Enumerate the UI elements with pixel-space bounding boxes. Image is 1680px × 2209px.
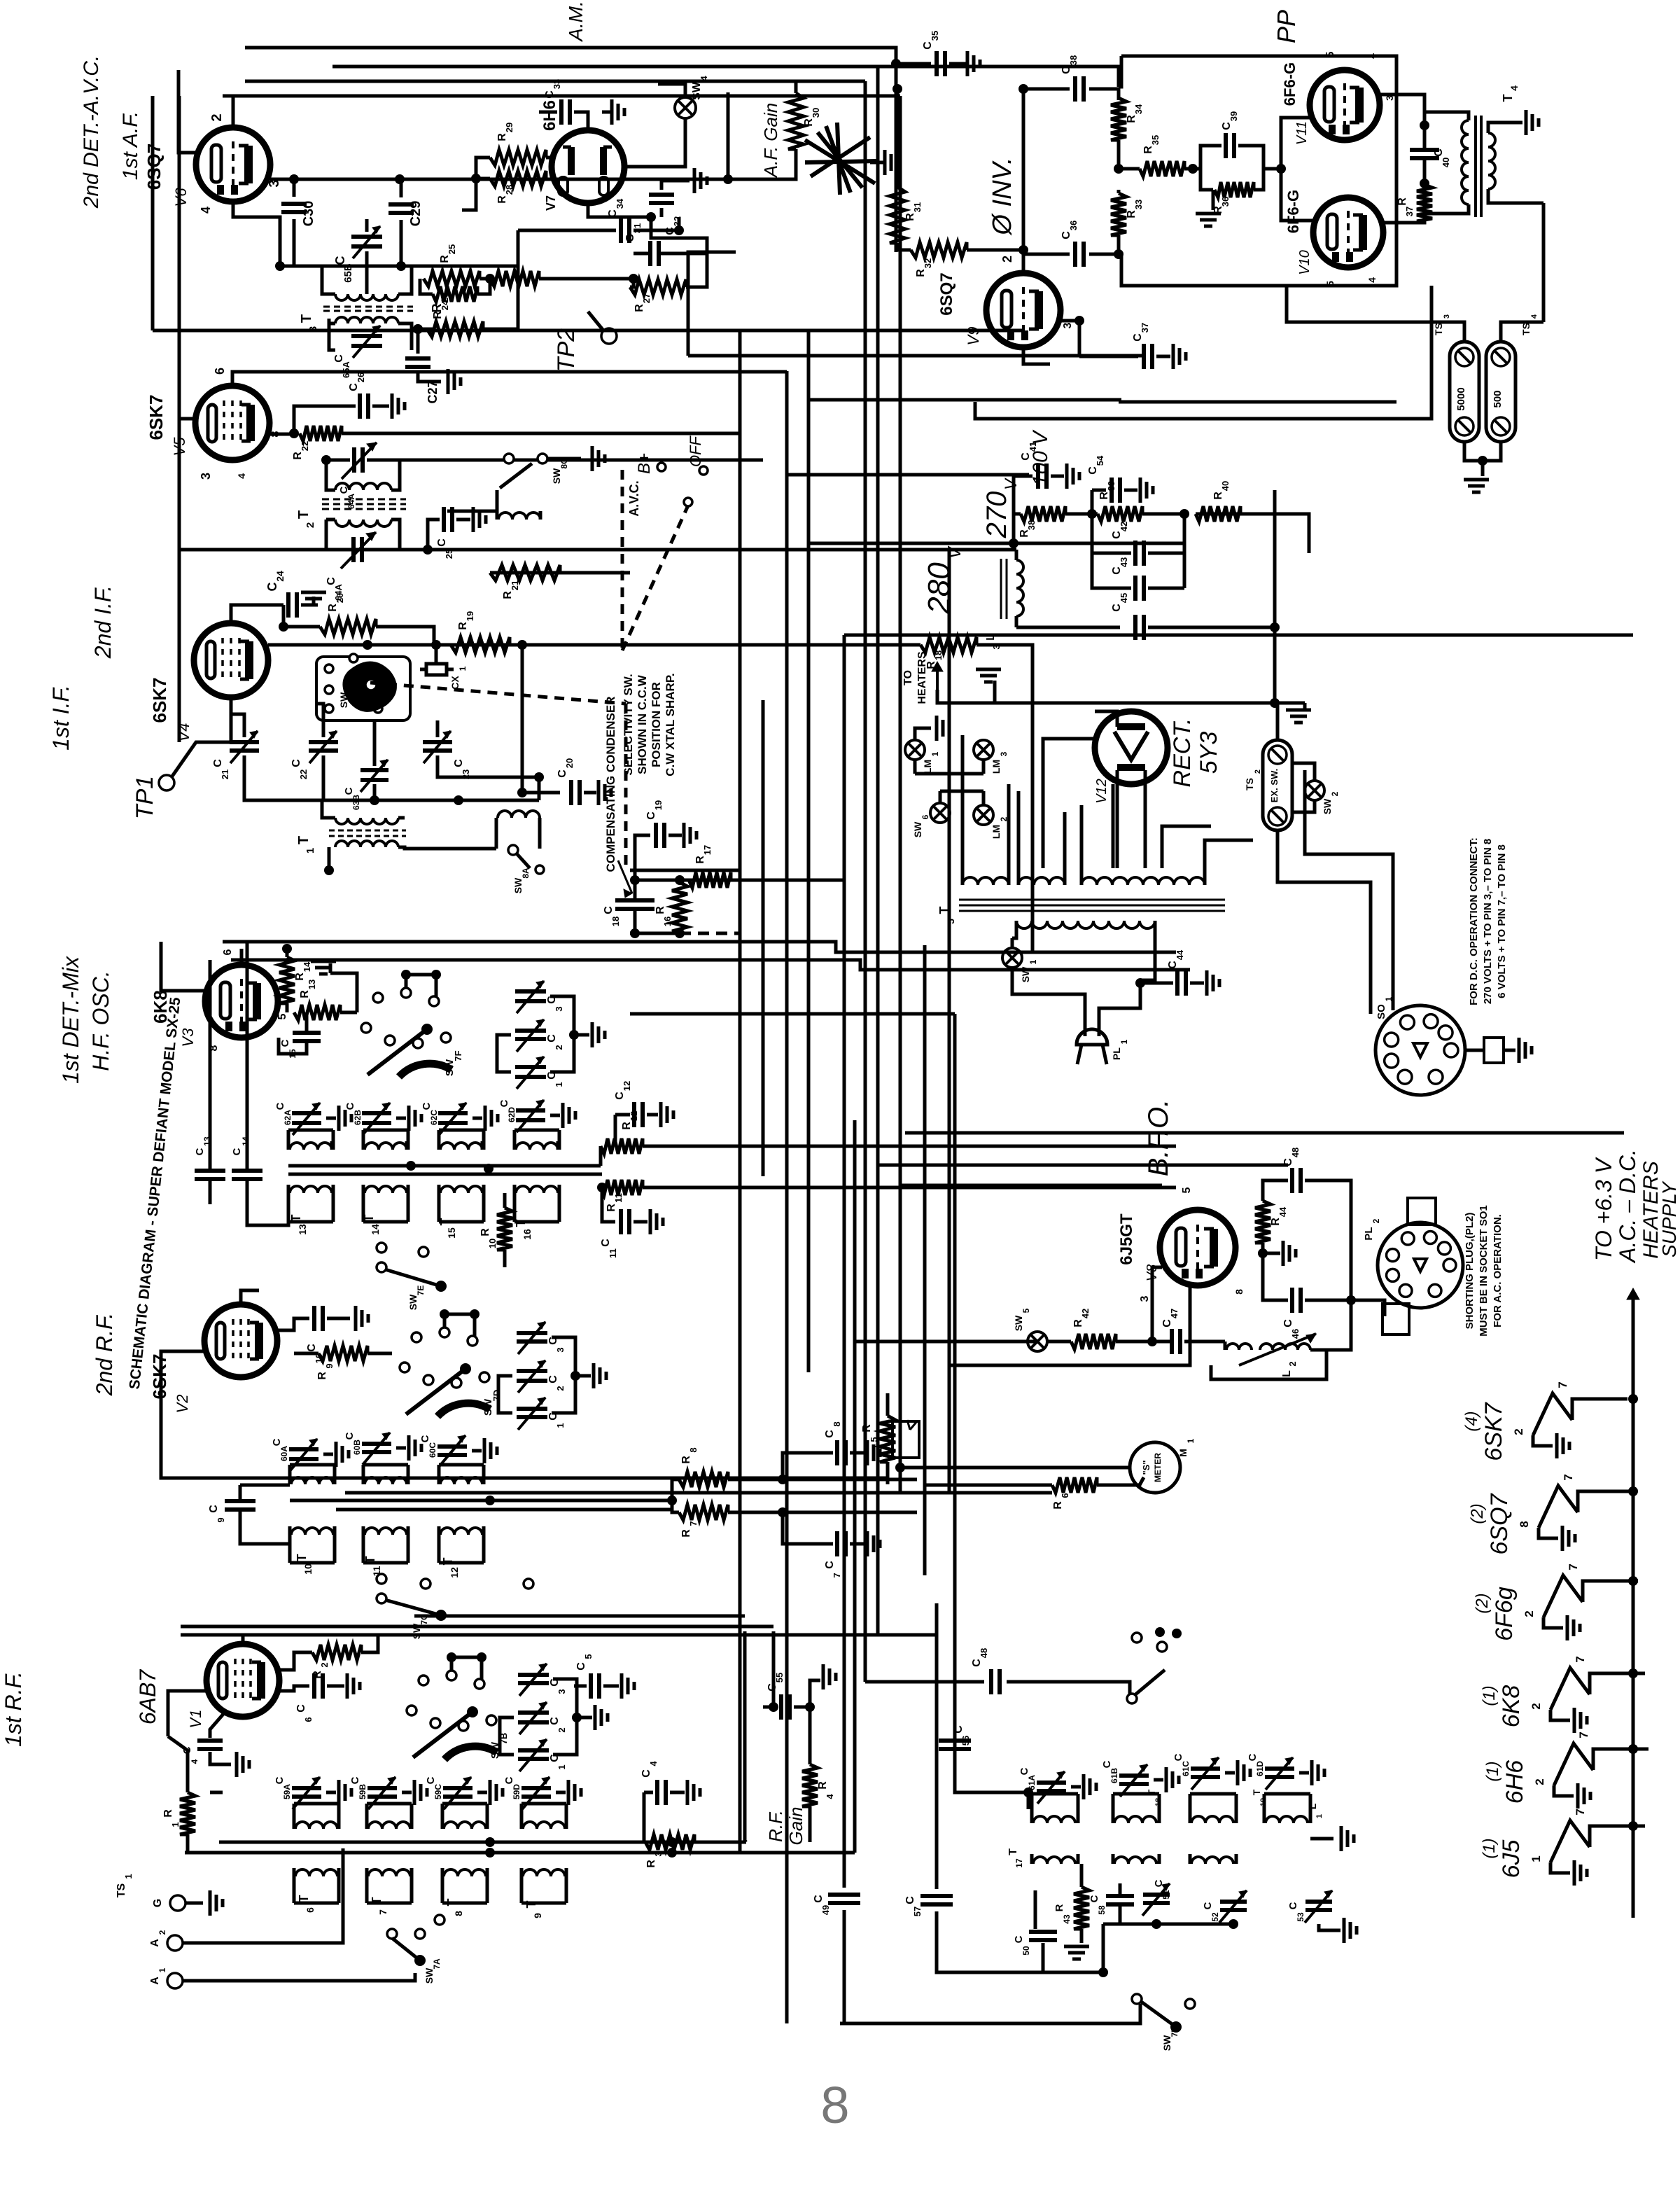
trimmer capacitor C1 <box>518 1748 549 1752</box>
svg-text:C: C <box>212 759 224 767</box>
T15 r <box>481 1141 484 1150</box>
R14 top <box>286 949 289 957</box>
resistor R14 vertical <box>279 957 295 1003</box>
wire bus-y785 <box>179 548 1016 552</box>
T14 l <box>362 1141 365 1150</box>
shorting plug PL2 socket <box>1378 1222 1463 1308</box>
T16 l <box>513 1141 517 1150</box>
svg-text:C: C <box>295 1704 307 1713</box>
svg-text:1: 1 <box>1119 1039 1129 1044</box>
wire <box>183 1973 415 1981</box>
tube V7 6H6 (duo-diode) <box>552 130 624 203</box>
V2 left wire long <box>161 1351 888 1478</box>
svg-text:56: 56 <box>960 1736 971 1745</box>
wire trunk-3 <box>785 371 789 2023</box>
loop side <box>288 1535 292 1563</box>
R43 bottom <box>1080 1929 1084 1943</box>
switch SW7D arc <box>437 1403 490 1416</box>
svg-text:3: 3 <box>1443 314 1451 319</box>
svg-text:8: 8 <box>820 2076 849 2134</box>
tab wire2 <box>1504 1049 1515 1052</box>
svg-text:9: 9 <box>324 1363 335 1368</box>
C23 top <box>436 720 440 737</box>
switch SW2 <box>1305 781 1324 800</box>
trimmer capacitor C1 <box>517 1407 547 1411</box>
svg-text:34: 34 <box>1133 104 1144 114</box>
varcap C53 <box>1305 1900 1332 1904</box>
wire bus-y907 heaters <box>844 634 1633 637</box>
svg-text:PL: PL <box>1363 1227 1375 1240</box>
svg-text:1: 1 <box>458 666 468 671</box>
C15 loop <box>279 1038 307 1054</box>
svg-text:V7: V7 <box>544 195 558 211</box>
stub bus <box>451 1656 482 1659</box>
svg-text:20: 20 <box>564 758 575 768</box>
C31 lead r <box>659 253 707 287</box>
C6 lead <box>279 1686 309 1691</box>
svg-text:3: 3 <box>991 644 1002 649</box>
R2 l <box>279 1652 312 1670</box>
T1 core <box>329 830 406 836</box>
gnd lead <box>472 1117 482 1120</box>
wire <box>1263 167 1281 171</box>
svg-text:12: 12 <box>622 1081 632 1091</box>
C65B top lead <box>365 219 369 232</box>
T3 sec left2 <box>329 319 335 323</box>
L2 r <box>1310 1350 1326 1365</box>
svg-text:C: C <box>1060 66 1072 74</box>
svg-text:METER: METER <box>1153 1453 1163 1482</box>
wire <box>479 277 490 281</box>
CX1 lead r <box>447 668 454 671</box>
gnd lead <box>1154 1778 1163 1782</box>
T5 p2 l <box>1017 868 1021 885</box>
svg-text:C27: C27 <box>426 380 440 403</box>
svg-text:23: 23 <box>461 769 471 779</box>
svg-text:22: 22 <box>300 441 310 451</box>
loop bottom <box>439 1561 484 1565</box>
T4 sec top lead <box>1488 123 1512 133</box>
svg-text:R: R <box>621 1122 633 1130</box>
trimmer C61C with ground <box>1191 1766 1220 1771</box>
wire trunk-7 <box>899 96 902 1493</box>
svg-text:C: C <box>922 41 934 50</box>
wire bus-y1243 <box>630 869 740 872</box>
svg-text:14: 14 <box>302 961 312 972</box>
C21 top lead <box>231 697 244 737</box>
C14 top <box>246 1134 249 1169</box>
resistor R20 <box>320 619 376 634</box>
svg-text:3: 3 <box>1139 1295 1151 1302</box>
svg-text:A.V.C.: A.V.C. <box>627 480 641 516</box>
switch SW7E <box>377 1243 386 1253</box>
C40 t <box>1423 125 1427 148</box>
box bot l <box>1200 169 1213 190</box>
svg-text:17: 17 <box>1014 1858 1024 1868</box>
svg-text:RECT.: RECT. <box>1169 718 1196 788</box>
trimmer C61A with ground <box>1037 1781 1066 1785</box>
stub <box>480 1657 484 1679</box>
T8 r <box>486 1815 489 1829</box>
bus y2143 <box>290 1499 672 1503</box>
bracket right <box>553 1679 577 1755</box>
meter M1 <box>1130 1442 1180 1493</box>
svg-text:4: 4 <box>1530 314 1539 319</box>
trimmer C61B with ground <box>1119 1774 1149 1778</box>
svg-text:1: 1 <box>157 1967 167 1972</box>
C20 stem <box>522 645 560 793</box>
gnd lead <box>327 1317 350 1320</box>
svg-text:R: R <box>162 1809 174 1818</box>
wire dashed avc2 <box>621 470 624 650</box>
pot gnd lead <box>870 161 883 165</box>
capacitor C31 <box>648 241 652 266</box>
TP1 wire <box>171 697 231 777</box>
svg-text:R: R <box>694 856 706 864</box>
trimmer C59C with ground <box>443 1786 472 1790</box>
loop top <box>367 1802 412 1806</box>
svg-text:V10: V10 <box>1297 250 1312 275</box>
R4 bottom <box>808 1806 812 1842</box>
junction C29 top <box>396 261 406 271</box>
C43 lead <box>1148 587 1184 590</box>
loop side <box>337 1876 341 1903</box>
V10 plate wire <box>1383 183 1424 223</box>
svg-text:500: 500 <box>1492 390 1504 407</box>
trimmer C60A with ground <box>289 1447 318 1451</box>
wire bus-y1257 <box>635 879 844 882</box>
resistor R19 <box>451 637 510 653</box>
loop side <box>437 1130 441 1150</box>
svg-text:64A: 64A <box>346 494 356 509</box>
svg-text:21: 21 <box>220 769 230 779</box>
loop side <box>1030 1794 1034 1823</box>
R9 l <box>294 1352 318 1356</box>
svg-text:13: 13 <box>297 1224 308 1235</box>
T19 l <box>1189 1809 1192 1823</box>
T7 r <box>410 1815 414 1829</box>
svg-text:R: R <box>680 1456 692 1464</box>
resistor R23 <box>427 321 483 337</box>
svg-text:7: 7 <box>1574 1656 1587 1662</box>
R24 lead <box>420 279 433 294</box>
T4 core <box>1476 116 1481 217</box>
svg-text:1st R.F.: 1st R.F. <box>1 1671 26 1747</box>
wire <box>539 277 633 281</box>
svg-text:SO: SO <box>1375 1004 1387 1019</box>
C43 left <box>1092 553 1131 588</box>
switch SW8C <box>504 454 514 464</box>
svg-text:52: 52 <box>1210 1912 1220 1922</box>
svg-text:TP2: TP2 <box>553 328 580 372</box>
C33 gnd lead <box>602 111 610 114</box>
T5 p1 r <box>1007 868 1011 885</box>
stub bus <box>444 1313 475 1316</box>
wire <box>232 96 235 127</box>
svg-text:2: 2 <box>304 522 316 528</box>
V1 left wire <box>168 1691 206 1736</box>
PL2 tabs <box>1408 1198 1436 1225</box>
C26 lead <box>294 406 356 433</box>
svg-text:G: G <box>152 1899 164 1907</box>
resistor R13 <box>294 1005 340 1020</box>
svg-text:SW: SW <box>407 1294 419 1310</box>
svg-text:5: 5 <box>945 919 956 924</box>
svg-text:35: 35 <box>930 31 940 41</box>
join <box>1464 442 1501 461</box>
svg-text:36: 36 <box>1068 221 1079 230</box>
svg-text:C: C <box>904 1896 916 1904</box>
lamp-switch SW4 <box>675 97 696 118</box>
R10 bottom <box>503 1250 507 1267</box>
svg-text:R: R <box>1270 1218 1282 1226</box>
wire dashed avc <box>680 932 740 935</box>
svg-text:C: C <box>556 769 568 778</box>
svg-text:6K8: 6K8 <box>1498 1685 1525 1728</box>
svg-text:62D: 62D <box>507 1107 517 1122</box>
svg-text:35: 35 <box>1150 135 1161 145</box>
R16 bottom <box>678 931 682 933</box>
svg-text:54: 54 <box>1095 455 1105 466</box>
loop side <box>365 1876 369 1903</box>
switch SW7A <box>387 1929 397 1939</box>
wire bus-y1618 <box>905 1131 1624 1135</box>
bus y2156 <box>336 1508 672 1512</box>
svg-text:2: 2 <box>1000 256 1014 263</box>
C4b down <box>643 1792 646 1842</box>
switch SW7N contacts <box>1127 1694 1137 1703</box>
trimmer C60C with ground <box>437 1444 467 1449</box>
C34 lead <box>603 229 616 232</box>
svg-text:C: C <box>1287 1902 1299 1909</box>
gnd lead <box>1299 1771 1309 1775</box>
wire <box>241 1290 259 1304</box>
SW4 top lead <box>658 84 685 97</box>
svg-text:2: 2 <box>1254 769 1262 774</box>
svg-text:OFF: OFF <box>687 435 704 467</box>
C12 lead <box>615 1113 630 1117</box>
svg-text:R: R <box>803 118 815 127</box>
C22 top lead <box>316 704 323 737</box>
svg-text:270 VOLTS + TO PIN 3,– TO PIN: 270 VOLTS + TO PIN 3,– TO PIN 8 <box>1482 839 1494 1004</box>
lamp bus <box>915 772 983 776</box>
T2 sec right down <box>391 520 400 550</box>
R1 vertical resistor <box>180 1792 195 1834</box>
svg-text:47: 47 <box>1169 1309 1179 1318</box>
tube V3 6K8 <box>205 965 278 1038</box>
svg-text:C: C <box>271 1438 283 1446</box>
C21 bottom lead <box>244 755 322 800</box>
output transformer T4 secondary <box>1488 133 1495 189</box>
tube V6 6SQ7 <box>196 127 270 202</box>
loop top <box>439 1129 484 1132</box>
R44 t <box>1261 1194 1265 1201</box>
R39 l <box>1092 513 1098 516</box>
svg-text:C: C <box>1088 1895 1100 1902</box>
svg-text:31: 31 <box>912 202 923 212</box>
svg-text:2: 2 <box>1512 1428 1525 1435</box>
wire bus-y776 <box>808 542 1014 545</box>
C35 lead <box>896 62 931 66</box>
T11s l <box>362 1526 365 1535</box>
loop side <box>482 1130 486 1150</box>
wire bus-y1371 <box>231 960 1190 970</box>
loop side <box>333 1465 337 1484</box>
svg-text:C: C <box>344 1102 356 1110</box>
svg-text:SELECTIVITY SW.: SELECTIVITY SW. <box>622 674 635 775</box>
loop side <box>365 1804 369 1829</box>
R18 left lead <box>808 643 920 647</box>
gnd lead <box>396 1117 406 1120</box>
L3 bottom <box>1015 616 1018 627</box>
svg-text:7: 7 <box>377 1909 388 1915</box>
variable capacitor C65A <box>351 537 356 562</box>
trimmer C62B with ground <box>362 1111 391 1115</box>
R33 top <box>1117 190 1121 193</box>
C56 bottom <box>955 1750 1028 1792</box>
T3 sec left <box>329 319 335 350</box>
R29 left <box>476 158 490 179</box>
wire bus-y1950 <box>949 1285 1190 1365</box>
SW6 up <box>939 791 942 803</box>
loop side <box>293 1876 296 1903</box>
wire <box>322 799 539 802</box>
gnd lead <box>556 1791 566 1795</box>
C42 stem <box>1148 514 1184 553</box>
t5 up2 <box>1007 784 1011 868</box>
svg-text:1: 1 <box>930 751 940 756</box>
C8 stem <box>783 1453 833 1479</box>
gnd lead <box>1225 1771 1235 1775</box>
wire <box>483 328 518 331</box>
resistor R39 <box>1098 506 1142 522</box>
loop side <box>558 1130 561 1150</box>
svg-text:59D: 59D <box>512 1784 521 1799</box>
t5 up7 <box>1112 784 1115 868</box>
C45 right <box>1148 626 1275 629</box>
svg-text:T: T <box>296 836 311 844</box>
loop side <box>407 1130 410 1150</box>
svg-text:57: 57 <box>912 1907 923 1916</box>
gnd lead <box>326 1117 336 1120</box>
svg-text:6 VOLTS + TO PIN 7,– TO PIN 8: 6 VOLTS + TO PIN 7,– TO PIN 8 <box>1496 844 1508 998</box>
R10 top <box>503 1193 507 1208</box>
gnd lead <box>550 1114 560 1117</box>
loop side <box>520 1804 524 1829</box>
gnd lead <box>477 1791 487 1795</box>
gnd lead <box>327 1685 344 1688</box>
grid V10 <box>1281 169 1313 221</box>
C65B2 bottom <box>373 784 377 800</box>
T10 r <box>333 1477 337 1484</box>
svg-text:42: 42 <box>1119 522 1129 531</box>
trimmer capacitor C2 <box>515 1029 546 1033</box>
svg-text:C30: C30 <box>301 201 316 227</box>
stub <box>1212 190 1215 210</box>
capacitor C29 <box>388 202 414 207</box>
T11 r <box>407 1477 410 1484</box>
T14 r <box>405 1141 409 1150</box>
trimmer capacitor C3 <box>517 1331 547 1335</box>
loop bottom <box>288 1220 333 1224</box>
T1 prim left <box>322 800 335 818</box>
svg-text:LM: LM <box>922 760 933 774</box>
loop side <box>482 1535 486 1563</box>
svg-text:48: 48 <box>1290 1148 1301 1157</box>
svg-text:B.F.O.: B.F.O. <box>1143 1099 1174 1176</box>
svg-text:5: 5 <box>276 1013 288 1019</box>
R29 right <box>546 156 553 160</box>
svg-text:7: 7 <box>832 1573 842 1577</box>
C33 lead <box>574 112 588 130</box>
svg-text:6J5: 6J5 <box>1498 1840 1525 1879</box>
svg-text:R: R <box>817 1781 829 1790</box>
R11 l <box>601 1186 602 1190</box>
loop side <box>1235 1794 1238 1823</box>
resistor R33 vertical <box>1111 193 1126 235</box>
C44 lead <box>1140 982 1173 985</box>
svg-text:59C: 59C <box>433 1784 443 1799</box>
bracket right <box>552 1337 575 1413</box>
svg-text:53: 53 <box>1296 1912 1305 1922</box>
loop bottom <box>294 1902 339 1905</box>
svg-text:TS: TS <box>1520 323 1532 335</box>
svg-text:2: 2 <box>319 1662 330 1667</box>
sec drop <box>1542 203 1546 322</box>
loop side <box>337 1804 341 1829</box>
R40 span <box>1196 513 1240 516</box>
T7 l <box>365 1815 369 1829</box>
loop side <box>437 1465 441 1484</box>
T18s r <box>1158 1854 1161 1864</box>
svg-text:43: 43 <box>1119 557 1129 567</box>
gnd lead <box>1051 475 1064 478</box>
V3 left wire <box>161 942 205 991</box>
svg-text:R: R <box>479 1228 491 1236</box>
C13 top <box>209 1141 212 1169</box>
resistor R29 <box>490 150 546 165</box>
svg-text:16: 16 <box>662 917 673 926</box>
svg-text:40: 40 <box>1441 158 1451 167</box>
wire trunk-1124-top <box>785 372 789 475</box>
T2 prim right <box>391 460 400 490</box>
svg-text:SHORTING PLUG,(PL2): SHORTING PLUG,(PL2) <box>1464 1213 1476 1330</box>
choke L3 <box>1001 559 1007 619</box>
svg-text:C: C <box>194 1148 206 1155</box>
loop bottom <box>521 1902 566 1905</box>
svg-text:29: 29 <box>504 123 514 132</box>
stub <box>177 70 181 96</box>
T7s l <box>365 1868 369 1876</box>
T19s l <box>1189 1854 1192 1864</box>
wire bus-y1448 <box>630 1012 955 1016</box>
svg-text:6F6-G: 6F6-G <box>1284 190 1302 233</box>
svg-text:T: T <box>937 907 951 914</box>
svg-text:4: 4 <box>648 1761 659 1766</box>
gnd lead <box>1124 489 1137 492</box>
R8 r <box>728 1478 917 1482</box>
C4b stem <box>644 1791 653 1795</box>
R4 top lead <box>810 1680 820 1707</box>
C46 stem <box>1263 1253 1288 1300</box>
svg-text:46: 46 <box>1290 1329 1301 1339</box>
svg-text:6SK7: 6SK7 <box>1480 1402 1507 1461</box>
drop <box>1078 321 1081 356</box>
loop side <box>482 1193 486 1222</box>
stub bus <box>406 973 436 977</box>
loop side <box>407 1465 410 1484</box>
svg-text:C: C <box>1153 1879 1165 1887</box>
